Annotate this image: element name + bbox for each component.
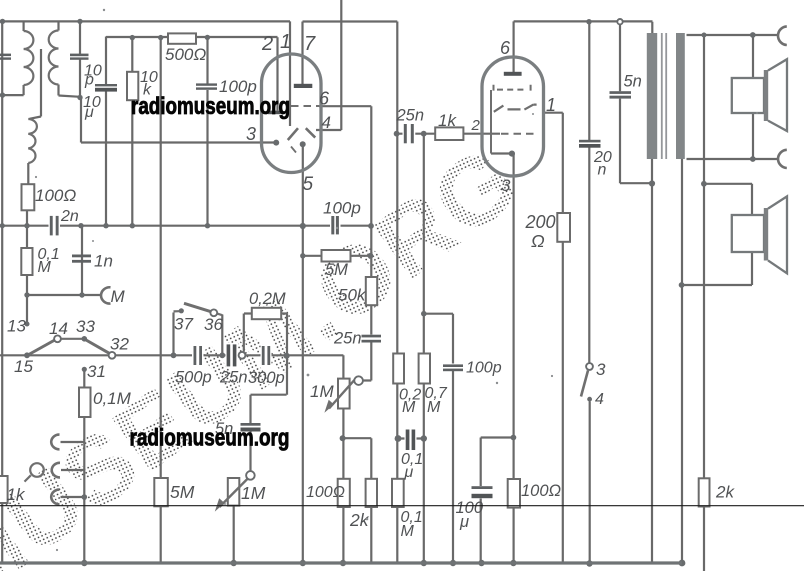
svg-text:M: M <box>38 259 52 276</box>
svg-text:radiomuseum.org: radiomuseum.org <box>130 424 290 451</box>
svg-text:100p: 100p <box>323 199 361 218</box>
svg-text:5n: 5n <box>624 73 642 91</box>
svg-text:200: 200 <box>525 212 556 232</box>
svg-text:1M: 1M <box>241 483 266 503</box>
svg-text:radiomuseum.org: radiomuseum.org <box>131 93 290 120</box>
svg-text:p: p <box>84 72 94 89</box>
svg-text:32: 32 <box>110 335 129 354</box>
svg-text:500Ω: 500Ω <box>165 45 206 64</box>
svg-text:2n: 2n <box>60 208 79 225</box>
svg-text:3: 3 <box>596 360 606 379</box>
svg-text:33: 33 <box>76 317 95 336</box>
svg-text:3: 3 <box>501 176 511 195</box>
svg-text:6: 6 <box>500 38 511 58</box>
svg-text:300p: 300p <box>248 369 285 387</box>
svg-text:15: 15 <box>14 357 33 376</box>
svg-text:5M: 5M <box>325 261 348 279</box>
svg-text:25n: 25n <box>219 369 248 387</box>
svg-text:2: 2 <box>471 117 481 134</box>
svg-text:100Ω: 100Ω <box>306 484 345 501</box>
svg-text:3: 3 <box>246 124 256 144</box>
svg-text:Ω: Ω <box>531 231 545 251</box>
svg-text:2: 2 <box>261 33 273 55</box>
svg-text:6: 6 <box>319 89 330 109</box>
svg-text:0,2M: 0,2M <box>249 290 286 308</box>
svg-text:14: 14 <box>49 319 68 338</box>
svg-text:4: 4 <box>595 391 604 408</box>
svg-text:100Ω: 100Ω <box>35 186 76 205</box>
svg-text:4: 4 <box>322 113 331 132</box>
svg-text:M: M <box>401 523 415 540</box>
svg-text:M: M <box>427 399 441 416</box>
svg-text:500p: 500p <box>175 369 212 387</box>
svg-text:5M: 5M <box>170 482 195 502</box>
svg-text:31: 31 <box>87 362 106 381</box>
svg-text:n: n <box>598 162 607 179</box>
svg-text:M: M <box>111 287 126 306</box>
svg-text:36: 36 <box>204 315 223 334</box>
svg-text:25n: 25n <box>396 107 425 125</box>
svg-text:7: 7 <box>304 33 316 55</box>
svg-text:1k: 1k <box>438 111 457 130</box>
svg-text:1k: 1k <box>7 485 26 504</box>
svg-text:1M: 1M <box>310 382 334 401</box>
svg-text:25n: 25n <box>333 330 362 348</box>
svg-text:μ: μ <box>459 513 469 531</box>
svg-text:2k: 2k <box>715 483 735 502</box>
svg-text:1: 1 <box>280 31 291 53</box>
svg-text:1n: 1n <box>94 252 113 271</box>
svg-text:5: 5 <box>303 174 314 195</box>
svg-text:μ: μ <box>404 464 414 481</box>
svg-text:37: 37 <box>174 315 193 334</box>
svg-text:13: 13 <box>7 317 26 336</box>
svg-text:μ: μ <box>84 104 94 121</box>
svg-text:100p: 100p <box>466 360 502 377</box>
svg-text:50k: 50k <box>338 286 367 305</box>
svg-text:100Ω: 100Ω <box>521 482 561 500</box>
svg-text:0,1M: 0,1M <box>93 389 132 408</box>
svg-text:M: M <box>402 399 416 416</box>
svg-text:1: 1 <box>546 95 556 115</box>
